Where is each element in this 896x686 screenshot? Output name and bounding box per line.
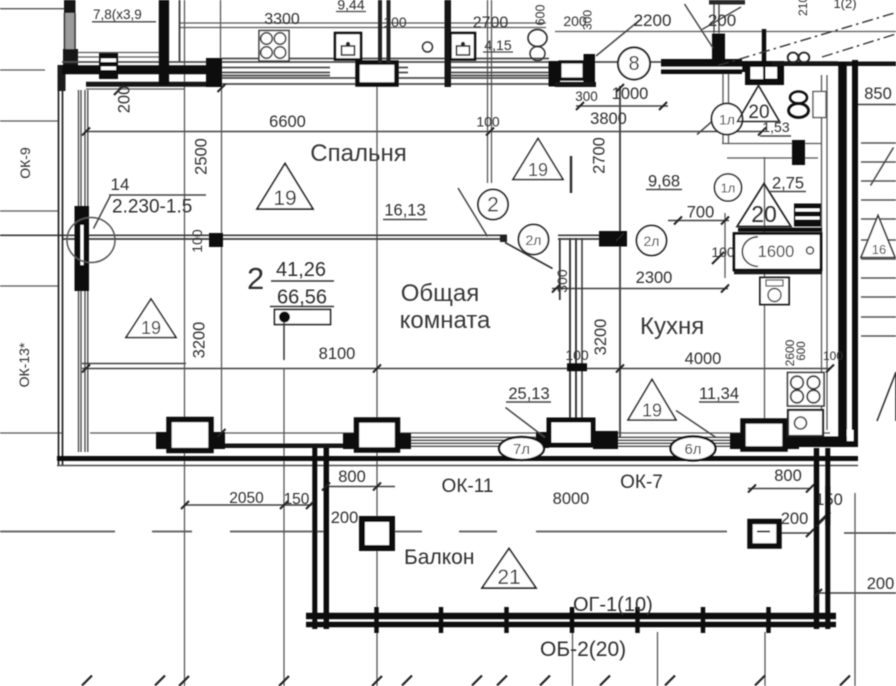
node circle 1л lower xyxy=(715,174,742,201)
svg-text:100: 100 xyxy=(189,229,205,253)
wall left inner line x87.8 xyxy=(87,90,89,452)
wire left edge stub y8.7 xyxy=(0,8,64,10)
door jamb mark bedroom x571 xyxy=(570,156,573,193)
svg-text:19: 19 xyxy=(141,318,161,338)
svg-text:Балкон: Балкон xyxy=(404,546,474,569)
svg-text:8100: 8100 xyxy=(319,345,356,363)
toilet 1 xyxy=(335,33,361,60)
svg-text:1(2): 1(2) xyxy=(833,0,856,11)
label 4,15 xyxy=(483,37,513,53)
wall end tick x500 xyxy=(500,235,507,242)
svg-text:1л: 1л xyxy=(721,181,736,196)
bedroom/living wall y237/240.5 xyxy=(0,235,600,239)
svg-text:ОК-9: ОК-9 xyxy=(17,147,33,179)
wire upper room wall y52.5 xyxy=(75,52,169,54)
grid line B x377 xyxy=(376,86,378,686)
wall upper apartment x380/x388.5 xyxy=(380,0,389,63)
triangle 20 upper xyxy=(738,86,780,124)
svg-text:ОГ-1(10): ОГ-1(10) xyxy=(573,594,653,616)
stove xyxy=(788,373,825,407)
dim line 6600 y131.5 xyxy=(85,131,762,133)
vent hatched box xyxy=(794,204,821,227)
triangle 19 kitchen xyxy=(628,380,676,421)
wall line below tub y272.7 xyxy=(734,271,822,274)
window ОК-11 W2 stubs xyxy=(343,433,357,449)
svg-text:19: 19 xyxy=(528,160,548,180)
wall black segment y84.5 x555-595 xyxy=(555,82,596,87)
dark block x792 y140 xyxy=(792,140,805,165)
svg-text:300: 300 xyxy=(581,10,595,30)
dim line 200R y533 xyxy=(762,532,810,534)
bath west wall x723 xyxy=(722,72,724,144)
extension line x855 xyxy=(854,493,856,686)
svg-text:600: 600 xyxy=(534,5,548,26)
tick on y533 xyxy=(806,529,814,537)
leader kitchen 19 to 6л xyxy=(676,411,716,438)
extension line x620 xyxy=(619,86,621,437)
bedroom east wall line x491.5 xyxy=(491,0,493,183)
wall top-left pier lower xyxy=(63,49,78,67)
svg-text:850: 850 xyxy=(864,85,892,103)
window top W1 xyxy=(358,63,397,85)
wire band line y62 xyxy=(62,61,838,63)
window ОК-13 W1 stubs xyxy=(156,432,169,449)
small oval pair on wall xyxy=(788,53,799,63)
wall partition line x576 xyxy=(575,238,577,433)
svg-text:4000: 4000 xyxy=(685,350,722,368)
node oval 6л xyxy=(671,437,716,461)
kitchen sink xyxy=(788,410,823,436)
bathtub inner end arc xyxy=(742,237,758,267)
extension line x284 xyxy=(283,368,285,686)
small circle fixture xyxy=(423,42,433,52)
bathtub drain xyxy=(807,247,814,254)
wall balcony left bar2 xyxy=(324,448,330,629)
svg-text:3200: 3200 xyxy=(191,322,209,359)
extension below balcony x657.5 xyxy=(657,632,659,686)
leader top right diagonal xyxy=(685,4,714,48)
svg-text:600: 600 xyxy=(796,341,808,360)
wall T-bar y66.5 x712-746 xyxy=(712,61,746,72)
window left wall (ОК-9) xyxy=(75,206,90,291)
wall balcony right bar1 xyxy=(814,448,820,629)
wall right bar2 x855 xyxy=(852,60,858,447)
leader 2.230 mark xyxy=(94,196,111,229)
triangle 20 bath xyxy=(737,184,791,228)
thin construction lines xyxy=(0,9,896,433)
wall partition line x559.8 xyxy=(559,238,561,300)
wire left edge stub y121 xyxy=(0,120,58,122)
svg-text:21: 21 xyxy=(497,566,520,589)
wall partition line x582 xyxy=(581,238,583,433)
wall balcony right bar2 xyxy=(825,448,830,629)
bedroom east wall line x487.5 xyxy=(487,0,489,183)
svg-text:200: 200 xyxy=(331,509,359,527)
wall bottom inner black y445.8 segment W1-W2 xyxy=(222,444,346,449)
dim line 850 y104.5 xyxy=(858,104,896,106)
dim line y533 right stub xyxy=(844,532,896,534)
svg-text:8000: 8000 xyxy=(553,490,590,508)
svg-text:700: 700 xyxy=(687,204,715,222)
bath west wall x728.5 xyxy=(728,72,730,144)
dim line 800R y488.5 xyxy=(748,488,811,490)
wire band line y58.5 xyxy=(222,58,549,60)
wall left outer line x58.5 xyxy=(58,66,60,466)
wall line y236.8 right segment xyxy=(558,234,600,236)
stair triangle partial right edge xyxy=(877,372,896,421)
wall bottom-right black band xyxy=(799,437,858,448)
wall top black segment x62-206 xyxy=(62,65,206,74)
wire pier side lines x64.5 x75 xyxy=(65,13,76,49)
svg-text:300: 300 xyxy=(575,89,598,104)
label 11,34 xyxy=(699,385,739,403)
svg-text:19: 19 xyxy=(642,401,662,421)
wire upper corridor line y31.5 xyxy=(555,31,896,33)
node oval 7л xyxy=(499,437,544,460)
ticks on y106 xyxy=(576,102,667,110)
wall pier x549 xyxy=(549,61,561,87)
svg-text:комната: комната xyxy=(400,307,491,334)
wire left edge stub y433 xyxy=(0,432,62,434)
wall pier x712 xyxy=(712,34,725,73)
svg-text:800: 800 xyxy=(338,468,366,486)
wire left edge stub y286 xyxy=(0,285,58,287)
tick inside right column xyxy=(757,531,770,533)
ticks on y486.5 xyxy=(322,483,381,491)
upper washbasin xyxy=(528,30,547,47)
triangle 19 bedroom xyxy=(257,164,313,211)
svg-text:2300: 2300 xyxy=(636,269,673,287)
svg-text:6600: 6600 xyxy=(269,113,306,131)
window ОК-13 W1 xyxy=(169,420,211,451)
window designation circle xyxy=(67,218,115,263)
svg-text:ОБ-2(20): ОБ-2(20) xyxy=(540,638,626,661)
svg-text:200: 200 xyxy=(781,510,809,528)
extension line x725 xyxy=(724,213,726,278)
wire left edge stub y211 xyxy=(0,210,58,212)
wall pier x764 upper xyxy=(762,29,767,61)
window top W2 xyxy=(560,62,584,79)
svg-text:14: 14 xyxy=(111,175,130,194)
label 1,53 xyxy=(760,119,791,136)
leader circle 8 xyxy=(596,19,641,56)
wall black above tub y229.7 xyxy=(738,228,822,232)
svg-text:Общая: Общая xyxy=(401,280,480,307)
svg-text:4,15: 4,15 xyxy=(484,37,511,53)
extension line x221.5 xyxy=(221,86,223,433)
wire upper room wall y57 xyxy=(75,56,169,58)
wall balcony bottom line2 xyxy=(306,622,836,628)
bottom edge arrow ticks xyxy=(82,676,850,686)
dashed axis line y531.5 xyxy=(0,531,727,533)
label 7,8(х3,9 xyxy=(92,7,156,22)
svg-text:ОК-13*: ОК-13* xyxy=(16,342,32,387)
svg-text:Кухня: Кухня xyxy=(640,313,704,340)
leader 25,13 to 7л xyxy=(506,408,546,438)
wire upper lines above pier xyxy=(714,0,719,33)
svg-text:200: 200 xyxy=(708,11,736,30)
wire band line y75.5 xyxy=(222,75,549,77)
wall junction blob x209 y233 xyxy=(209,233,223,247)
upper stove 4 burners xyxy=(259,31,289,62)
triangle 21 balcony xyxy=(482,549,536,590)
svg-text:2600: 2600 xyxy=(783,339,797,366)
washbasin wc xyxy=(760,278,789,305)
wall pier x445 xyxy=(445,0,452,87)
door leaf living to kitchen xyxy=(505,243,553,269)
triangle 19 hall xyxy=(513,139,563,181)
dim line y363.5 xyxy=(82,363,186,365)
kitchen east inner face x821.5 xyxy=(821,75,823,430)
wire bath top wall y158 xyxy=(727,157,818,159)
svg-text:210: 210 xyxy=(796,0,810,16)
svg-text:19: 19 xyxy=(273,187,296,210)
wall partition line x570 xyxy=(569,238,571,433)
svg-text:2: 2 xyxy=(247,261,264,296)
wall pier x206 xyxy=(206,58,222,87)
node circle 2л right xyxy=(637,226,667,256)
wall top black segment y84.3 xyxy=(86,82,206,87)
wall line y240.6 right segment xyxy=(558,238,600,240)
dim line 2050 y505 xyxy=(184,504,312,506)
svg-text:9,68: 9,68 xyxy=(648,173,680,191)
extension below balcony x572.5 xyxy=(572,632,574,686)
svg-text:3800: 3800 xyxy=(590,110,627,128)
svg-text:300: 300 xyxy=(554,269,570,293)
label 9,44 xyxy=(336,0,366,13)
svg-text:100: 100 xyxy=(565,347,589,363)
tick left wall 200 xyxy=(114,85,124,95)
svg-text:1л: 1л xyxy=(719,112,735,128)
wire band line y84 xyxy=(222,83,549,85)
dim line 200 far right y593 xyxy=(816,592,896,594)
svg-text:200: 200 xyxy=(867,575,895,593)
wall right bar1 x842.5 xyxy=(838,62,847,447)
node circle 2л left xyxy=(519,225,549,255)
svg-text:ОК-7: ОК-7 xyxy=(620,472,663,493)
antenna outlet symbol xyxy=(275,310,331,361)
svg-text:800: 800 xyxy=(774,467,802,485)
tick heavy on balcony wall right xyxy=(816,512,830,526)
grid line A x184.5 xyxy=(184,0,186,686)
window ОК-7 glazing lines xyxy=(618,437,730,446)
wall balcony bottom line1 xyxy=(306,613,836,620)
svg-text:200: 200 xyxy=(116,86,134,114)
svg-text:2500: 2500 xyxy=(193,138,211,175)
stair treads xyxy=(861,143,896,336)
wire sill line y433 segments xyxy=(90,432,830,434)
window slit right xyxy=(847,430,854,441)
partition wall living/kitchen xyxy=(560,156,582,433)
slash at 200 text xyxy=(702,7,741,30)
svg-text:16: 16 xyxy=(872,242,886,257)
wall upper apartment x159-169 xyxy=(159,0,169,85)
wall left inner line x81 xyxy=(80,90,82,452)
vertical grid and extension lines xyxy=(180,0,856,686)
svg-text:2,75: 2,75 xyxy=(772,175,804,193)
svg-text:150: 150 xyxy=(284,491,310,508)
node circle 2 xyxy=(478,190,508,220)
wall blob partition crossing y368 xyxy=(567,363,587,371)
wall black segment y63.7 x772-838 xyxy=(772,61,896,66)
leader 1л circle xyxy=(697,121,713,135)
node circle 1л upper xyxy=(712,104,743,135)
svg-text:2050: 2050 xyxy=(229,490,264,507)
dim line 700 y220.5 xyxy=(668,220,729,222)
dim line 8100 y368.5 xyxy=(82,368,830,370)
svg-text:9,44: 9,44 xyxy=(337,0,364,13)
wire band line y78 xyxy=(222,77,549,79)
triangle 19 living xyxy=(126,299,176,338)
wire upper corridor line y23 xyxy=(180,22,546,24)
wall junction blob x599 y231 xyxy=(599,231,627,247)
svg-text:2700: 2700 xyxy=(473,15,509,32)
svg-text:7л: 7л xyxy=(513,441,530,458)
wire band line y67.5 xyxy=(222,67,549,69)
kitchen east inner face x827 xyxy=(826,75,828,430)
svg-text:2: 2 xyxy=(487,194,499,217)
wall black bar x661-742 xyxy=(661,59,742,74)
svg-text:2200: 2200 xyxy=(634,11,672,30)
svg-text:3200: 3200 xyxy=(592,319,610,356)
wall left inner line x85 xyxy=(84,90,86,452)
svg-text:8: 8 xyxy=(628,53,639,75)
label 41,26 over 66,56 xyxy=(270,259,334,309)
wire upper line x220.5 xyxy=(220,0,222,58)
dim line 1000 y106 xyxy=(576,105,668,107)
small square x813 xyxy=(813,92,826,118)
svg-text:66,56: 66,56 xyxy=(277,287,327,309)
tick at bath 100 xyxy=(712,252,724,264)
svg-text:1,53: 1,53 xyxy=(762,119,789,135)
vent stack ovals xyxy=(790,92,807,104)
svg-text:3300: 3300 xyxy=(264,11,300,28)
svg-text:100: 100 xyxy=(711,244,735,260)
door leaf bedroom xyxy=(458,188,488,237)
balcony column left xyxy=(362,519,392,548)
stair walk line xyxy=(871,148,894,186)
window ОК-7 W4 xyxy=(743,421,785,449)
window W3 stubs xyxy=(536,432,549,448)
ticks on y368.5 xyxy=(82,365,834,373)
balcony column right xyxy=(750,522,779,547)
svg-text:100: 100 xyxy=(383,14,407,30)
extension below balcony x765 xyxy=(764,632,766,686)
label 25,13 xyxy=(506,385,551,403)
svg-text:20: 20 xyxy=(751,201,777,227)
ticks on y220.5 xyxy=(674,217,729,225)
wall corner chunk top-left xyxy=(58,65,66,91)
ticks x221.5 (2500/3200) xyxy=(218,84,226,437)
svg-text:1000: 1000 xyxy=(612,85,649,103)
dash-dot boundary line 1 xyxy=(718,13,896,66)
window ОК-11 glazing lines xyxy=(411,437,536,446)
svg-text:2.230-1.5: 2.230-1.5 xyxy=(112,197,192,218)
svg-text:41,26: 41,26 xyxy=(276,259,326,281)
label 2,75 xyxy=(770,175,806,193)
wall bottom outer black y458.5 xyxy=(57,456,858,461)
wall top-left pier above corner xyxy=(64,0,76,13)
wall left inner line x78.5 xyxy=(78,90,80,452)
toilet 2 xyxy=(451,33,476,60)
wall left outer line x62.5 xyxy=(62,66,64,466)
window ОК-11 W2 xyxy=(357,420,398,450)
dim line 2300 y288.5 xyxy=(552,288,728,290)
wire bath top wall y143.5 xyxy=(722,143,821,145)
wire inner face y87 xyxy=(86,88,184,90)
ticks on y131.5 xyxy=(82,128,766,136)
window block x745-784 xyxy=(745,61,784,85)
dimension lines (darker) xyxy=(82,105,896,594)
wall line y236.8 xyxy=(0,234,507,236)
svg-text:25,13: 25,13 xyxy=(508,385,549,403)
room label Общая комната xyxy=(400,280,491,334)
svg-text:2700: 2700 xyxy=(591,137,609,174)
upper bath edge mark xyxy=(709,0,745,5)
svg-text:Спальня: Спальня xyxy=(310,140,406,167)
svg-text:100: 100 xyxy=(476,114,500,130)
svg-text:ОК-11: ОК-11 xyxy=(442,476,494,497)
wire upper corridor line y27.5 xyxy=(180,27,546,29)
dash-dot boundary line 2 xyxy=(822,34,896,57)
svg-text:7,8(х3,9: 7,8(х3,9 xyxy=(93,7,142,22)
wall balcony left bar1 xyxy=(312,448,317,629)
tick on y593 xyxy=(814,589,822,597)
svg-text:16,13: 16,13 xyxy=(384,202,425,220)
window in party wall upper apt xyxy=(99,53,118,79)
label 16,13 xyxy=(383,202,427,220)
svg-text:11,34: 11,34 xyxy=(699,385,739,403)
wire band line y72.5 xyxy=(222,72,549,74)
extension line x764.5 xyxy=(764,157,766,420)
ticks on y505 xyxy=(181,501,314,509)
window W3 xyxy=(549,420,593,445)
node circle 8 xyxy=(618,48,650,80)
svg-text:1600: 1600 xyxy=(758,243,795,261)
dim line 800L y486.5 xyxy=(324,486,395,488)
svg-text:2л: 2л xyxy=(644,233,660,249)
balcony wall ticks xyxy=(377,607,769,633)
wall pier x584 xyxy=(584,54,596,87)
wall line y240.6 xyxy=(62,238,507,240)
bathtub xyxy=(734,234,821,271)
wire bottom outer face y465.5 xyxy=(57,465,858,467)
svg-text:100: 100 xyxy=(823,349,843,363)
label 9,68 xyxy=(646,173,682,191)
stair triangle marker xyxy=(861,216,895,258)
wire left edge stub y70 xyxy=(0,69,45,71)
overline 2.230-1.5 xyxy=(109,194,206,196)
ticks on y288.5 xyxy=(552,285,729,293)
wire corridor wall x179.5 xyxy=(179,0,181,62)
svg-text:2л: 2л xyxy=(526,232,542,248)
svg-text:6л: 6л xyxy=(684,441,701,458)
window ОК-7 W4 stubs xyxy=(730,433,743,449)
ticks on y488.5 xyxy=(748,485,814,493)
wall repaint balcony right bars xyxy=(817,486,828,525)
ticks x620 xyxy=(616,84,624,241)
